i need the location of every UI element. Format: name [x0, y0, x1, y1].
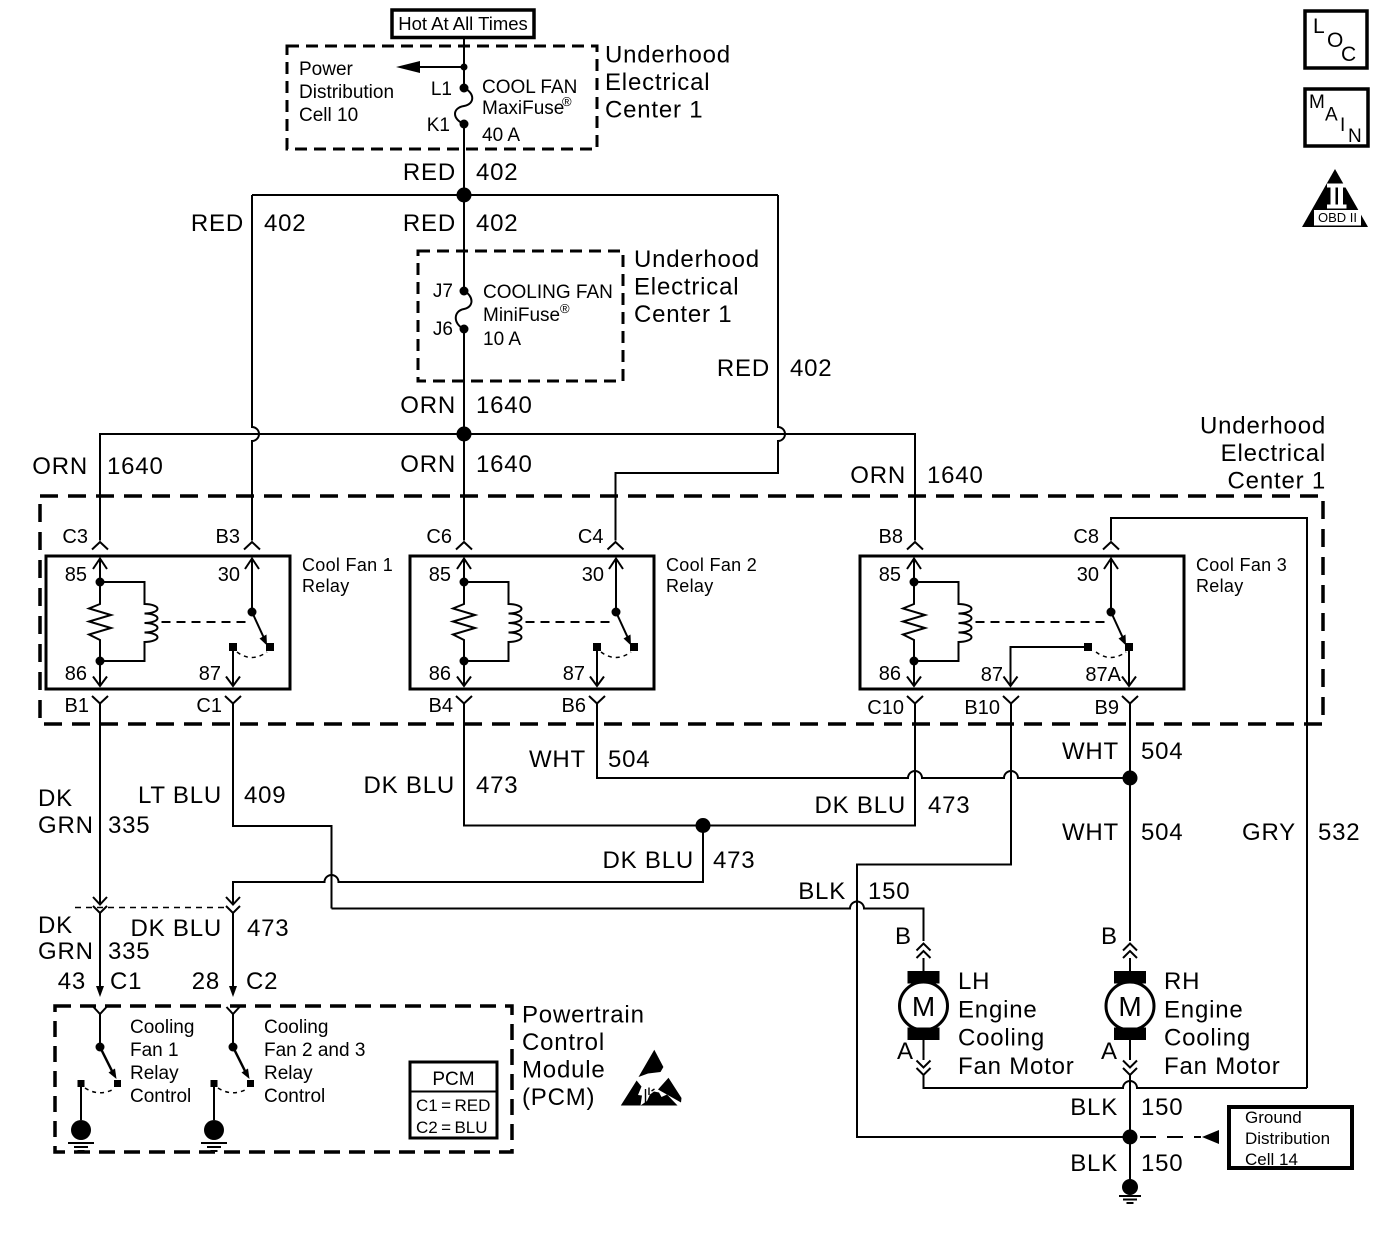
svg-text:Powertrain: Powertrain — [522, 1002, 645, 1029]
relay 1 switch travel dashed arc — [237, 652, 267, 658]
svg-text:Fan 1: Fan 1 — [130, 1040, 179, 1061]
svg-text:®: ® — [560, 301, 570, 316]
connector pin B10 (bottom of UEC) — [964, 696, 1019, 724]
PCM driver: Cooling Fan 1 Relay Control switch — [78, 1014, 122, 1120]
svg-text:Cool Fan 3: Cool Fan 3 — [1196, 555, 1287, 575]
svg-text:LT BLU: LT BLU — [138, 782, 222, 809]
svg-text:Fan Motor: Fan Motor — [958, 1053, 1075, 1080]
label: BLK 150 (at B10 drop) — [798, 878, 910, 905]
label: DK GRN 335 (lower) — [38, 912, 150, 965]
svg-text:C4: C4 — [578, 526, 604, 548]
label: BLK 150 (to ground) — [1070, 1150, 1183, 1177]
relay 1 pin 86 label — [65, 663, 87, 685]
wire: DK BLU 473 from splice to PCM C2 (hops LT BLU) — [233, 826, 703, 904]
svg-text:LH: LH — [958, 968, 990, 995]
label: ORN 1640 (right branch) — [850, 462, 983, 489]
relay 3 pin 85 label — [879, 564, 901, 586]
svg-text:PCM: PCM — [432, 1069, 474, 1090]
relay 2 coil-to-switch dashed link — [526, 621, 611, 623]
svg-text:Center 1: Center 1 — [1228, 468, 1326, 495]
relay 1 resistor — [89, 582, 111, 661]
svg-text:Cell 10: Cell 10 — [299, 105, 358, 126]
svg-text:WHT: WHT — [1062, 738, 1119, 765]
svg-text:RH: RH — [1164, 968, 1200, 995]
svg-text:Relay: Relay — [302, 576, 350, 596]
wire: DK BLU 473 from in-line connector into PCM pin 28 C2 — [229, 913, 237, 997]
svg-text:Electrical: Electrical — [605, 69, 710, 96]
label: ORN 1640 (left branch) — [32, 453, 163, 480]
label: WHT 504 (at B6) — [529, 746, 651, 773]
svg-text:ORN: ORN — [850, 462, 906, 489]
relay 2 resistor — [453, 582, 475, 661]
svg-text:OBD II: OBD II — [1318, 210, 1357, 225]
svg-text:40 A: 40 A — [482, 125, 520, 146]
wire: ORN 1640 from MiniFuse to splice — [463, 329, 465, 434]
svg-text:Relay: Relay — [1196, 576, 1244, 596]
relay 1 pin 85 label — [65, 564, 87, 586]
relay 2 coil node dots — [460, 578, 469, 666]
relay 1 open contact — [266, 643, 274, 651]
svg-text:1640: 1640 — [927, 462, 984, 489]
svg-text:Engine: Engine — [1164, 996, 1244, 1023]
relay 3 name label — [1196, 555, 1287, 596]
svg-text:RED: RED — [191, 210, 244, 237]
relay 3 pin 86 label — [879, 663, 901, 685]
label: PCM pin 43 connector C1 — [58, 968, 143, 995]
svg-text:30: 30 — [218, 564, 240, 586]
svg-text:ORN: ORN — [32, 453, 88, 480]
header: Powertrain Control Module (PCM) — [522, 1002, 645, 1112]
svg-text:K1: K1 — [427, 115, 450, 136]
label: WHT 504 (upper at B9) — [1062, 738, 1184, 765]
relay 3 pin 30 terminal arrow — [1104, 559, 1118, 613]
svg-text:B4: B4 — [429, 695, 453, 717]
svg-text:ORN: ORN — [400, 451, 456, 478]
label: LT BLU 409 — [138, 782, 286, 809]
svg-text:30: 30 — [582, 564, 604, 586]
svg-text:Module: Module — [522, 1057, 606, 1084]
LH fan B terminal in-line connector — [895, 923, 931, 971]
dashed box: Powertrain Control Module (PCM) — [55, 1006, 512, 1152]
RH fan B terminal in-line connector — [1101, 923, 1137, 971]
label: DK GRN 335 (upper) — [38, 785, 150, 839]
dashed box: Underhood Electrical Center 1 (MiniFuse) — [418, 251, 623, 381]
svg-text:402: 402 — [476, 159, 518, 186]
node: DK BLU 473 splice — [696, 818, 711, 833]
node: ORN 1640 splice — [457, 427, 472, 442]
arrow: to Power Distribution — [396, 61, 468, 73]
PCM connector pin C2 (female) — [227, 1007, 240, 1014]
label: DK BLU 473 (at B4) — [364, 772, 519, 799]
motor: LH Engine Cooling Fan Motor — [900, 971, 948, 1040]
svg-text:86: 86 — [429, 663, 451, 685]
svg-text:MiniFuse: MiniFuse — [483, 305, 560, 326]
svg-text:473: 473 — [713, 847, 755, 874]
svg-text:87A: 87A — [1085, 664, 1121, 686]
svg-text:Relay: Relay — [264, 1063, 313, 1084]
Hot At All Times tag — [392, 10, 534, 38]
PCM connector pin C1 (female) — [94, 1007, 107, 1014]
relay 2 pin 86 label — [429, 663, 451, 685]
svg-text:N: N — [1348, 126, 1362, 147]
svg-text:Cool Fan 1: Cool Fan 1 — [302, 555, 393, 575]
relay 1 pin 30 terminal arrow — [245, 559, 259, 613]
svg-text:B: B — [1101, 923, 1118, 950]
relay 2 pin 86 terminal arrow — [457, 661, 471, 686]
wire: GRY 532 from C8 to fan motors series link — [1111, 518, 1307, 1088]
fuse: COOLING FAN MiniFuse 10 A (pins J7/J6) — [433, 281, 613, 350]
svg-text:M: M — [1118, 991, 1141, 1022]
svg-text:10 A: 10 A — [483, 329, 521, 350]
wire: DK BLU 473 from B4 to C10 — [464, 724, 915, 826]
svg-text:A: A — [1325, 105, 1338, 126]
svg-text:ORN: ORN — [400, 392, 456, 419]
svg-text:Hot At All Times: Hot At All Times — [398, 13, 528, 34]
svg-text:C: C — [1341, 43, 1356, 66]
svg-text:Center 1: Center 1 — [634, 301, 732, 328]
svg-text:Electrical: Electrical — [1221, 440, 1326, 467]
svg-text:473: 473 — [476, 772, 518, 799]
dashed reference arrow to Ground Distribution — [1140, 1130, 1219, 1144]
relay 3 pin 85 terminal arrow — [907, 559, 921, 583]
wire: ORN 1640 center branch to C6 — [463, 434, 465, 541]
label: RED 402 (top) — [403, 159, 519, 186]
svg-text:85: 85 — [879, 564, 901, 586]
wire: RED 402 right branch to C4 (hops ORN bus) — [616, 195, 786, 541]
svg-text:DK: DK — [38, 785, 73, 812]
label: BLK 150 (above ground splice) — [1070, 1094, 1183, 1121]
svg-text:85: 85 — [65, 564, 87, 586]
label: LH Engine Cooling Fan Motor — [958, 968, 1075, 1080]
relay: Cool Fan 1 Relay body — [46, 556, 290, 689]
connector pin C3 (female, top of UEC) — [62, 526, 108, 550]
relay 3 switch travel dashed arc — [1096, 652, 1126, 658]
wire: LH fan A to GRY series link (hops RH fan lead) — [924, 1075, 1308, 1088]
node: RED 402 splice — [457, 188, 472, 203]
svg-text:GRN: GRN — [38, 812, 94, 839]
svg-text:I: I — [1340, 115, 1345, 136]
connector pin C8 (female, top of UEC) — [1073, 526, 1119, 550]
wire: BLK 150 from B10 to ground splice (hops LT BLU) — [857, 724, 1130, 1137]
svg-text:43: 43 — [58, 968, 86, 995]
LH fan A terminal in-line connector — [897, 1038, 931, 1075]
badge: LOC — [1305, 11, 1367, 68]
svg-text:C3: C3 — [62, 526, 88, 548]
wire: RED 402 distribution bus — [252, 194, 778, 196]
relay 2 pin 30 terminal arrow — [609, 559, 623, 613]
relay 3 switch arm — [1107, 608, 1127, 646]
motor: RH Engine Cooling Fan Motor — [1106, 971, 1154, 1040]
wire: DK GRN 335 from B1 to in-line connector — [99, 724, 101, 903]
label: RH Engine Cooling Fan Motor — [1164, 968, 1281, 1080]
wire: RED 402 from fuse to junction — [463, 124, 465, 195]
dashed box: Underhood Electrical Center 1 (fuse block) — [287, 46, 597, 149]
svg-text:Electrical: Electrical — [634, 274, 739, 301]
svg-text:Underhood: Underhood — [605, 42, 731, 69]
svg-text:B3: B3 — [216, 526, 240, 548]
relay 2 pin 87 terminal arrow — [590, 651, 604, 686]
svg-text:Relay: Relay — [666, 576, 714, 596]
svg-text:BLK: BLK — [1070, 1094, 1118, 1121]
ground (PCM fan 1 driver) — [68, 1120, 94, 1151]
fuse: COOL FAN MaxiFuse 40 A (pins L1/K1) — [427, 77, 578, 146]
label: DK BLU 473 (lower) — [131, 915, 290, 942]
relay 1 name label — [302, 555, 393, 596]
svg-text:87: 87 — [563, 663, 585, 685]
connector pin B3 (female, top of UEC) — [216, 526, 260, 550]
relay 1 coil-to-switch dashed link — [162, 621, 247, 623]
connector pin C6 (female, top of UEC) — [426, 526, 472, 550]
svg-text:DK BLU: DK BLU — [603, 847, 695, 874]
svg-text:B8: B8 — [879, 526, 903, 548]
svg-text:Underhood: Underhood — [1200, 413, 1326, 440]
svg-text:87: 87 — [981, 664, 1003, 686]
PCM driver: Cooling Fan 2 and 3 Relay Control switch — [211, 1014, 255, 1120]
relay 2 pin 87 label — [563, 663, 585, 685]
svg-text:L1: L1 — [431, 79, 452, 100]
svg-text:BLK: BLK — [798, 878, 846, 905]
svg-text:B: B — [895, 923, 912, 950]
svg-text:B9: B9 — [1095, 697, 1119, 719]
svg-text:DK BLU: DK BLU — [815, 792, 907, 819]
connector pin B6 (bottom of UEC) — [562, 695, 605, 724]
connector pin C4 (female, top of UEC) — [578, 526, 624, 550]
svg-text:C8: C8 — [1073, 526, 1099, 548]
svg-text:402: 402 — [264, 210, 306, 237]
connector pin C1 (bottom of UEC) — [196, 695, 241, 724]
relay 2 coil — [464, 582, 522, 661]
relay 2 switch arm — [612, 608, 632, 646]
relay 2 pin 30 label — [582, 564, 604, 586]
wire: BLK 150 RH fan A to ground splice — [1129, 1075, 1131, 1137]
svg-text:86: 86 — [65, 663, 87, 685]
label: Cooling Fan 2 and 3 Relay Control — [264, 1017, 365, 1107]
svg-text:BLK: BLK — [1070, 1150, 1118, 1177]
ground (PCM fan 2/3 driver) — [201, 1120, 227, 1151]
relay 3 resistor — [903, 582, 925, 661]
svg-text:GRN: GRN — [38, 938, 94, 965]
svg-text:COOLING FAN: COOLING FAN — [483, 282, 613, 303]
RH fan A terminal in-line connector — [1101, 1038, 1137, 1075]
svg-text:87: 87 — [199, 663, 221, 685]
ground (G100) — [1119, 1179, 1141, 1203]
label: GRY 532 — [1242, 819, 1360, 846]
svg-text:335: 335 — [108, 938, 150, 965]
svg-text:Power: Power — [299, 59, 354, 80]
label: RED 402 (center branch) — [403, 210, 519, 237]
relay 1 pin 85 terminal arrow — [93, 559, 107, 583]
svg-text:L: L — [1313, 15, 1325, 38]
svg-text:150: 150 — [1141, 1150, 1183, 1177]
svg-text:C1 = RED: C1 = RED — [416, 1096, 490, 1115]
relay 3 pin 30 label — [1077, 564, 1099, 586]
svg-text:30: 30 — [1077, 564, 1099, 586]
svg-text:1640: 1640 — [476, 451, 533, 478]
svg-text:Cooling: Cooling — [130, 1017, 194, 1038]
relay 3 coil node dots — [910, 578, 919, 666]
PCM connector color legend box — [410, 1062, 497, 1138]
wire: DK GRN 335 from in-line connector into PCM pin 43 C1 — [96, 913, 104, 997]
svg-text:GRY: GRY — [1242, 819, 1296, 846]
label: DK BLU 473 (center) — [603, 847, 756, 874]
svg-text:C10: C10 — [867, 697, 904, 719]
badge: OBD II — [1302, 169, 1368, 227]
relay 3 contact 87 leg — [981, 643, 1092, 686]
connector pin B8 (female, top of UEC) — [879, 526, 923, 550]
reference box: Ground Distribution Cell 14 — [1229, 1107, 1352, 1169]
svg-text:C1: C1 — [196, 695, 222, 717]
svg-text:C2: C2 — [246, 968, 278, 995]
ESD sensitivity symbol — [621, 1050, 682, 1106]
connector pin C10 (bottom of UEC) — [867, 696, 923, 724]
svg-text:Cooling: Cooling — [1164, 1025, 1251, 1052]
relay 2 open contact — [630, 643, 638, 651]
header: Underhood Electrical Center 1 (top) — [605, 42, 731, 124]
svg-text:C1: C1 — [110, 968, 142, 995]
svg-text:335: 335 — [108, 812, 150, 839]
badge: MAIN — [1305, 89, 1368, 147]
in-line connector C2 on DK BLU (PCM harness) — [226, 897, 240, 913]
svg-text:WHT: WHT — [529, 746, 586, 773]
svg-text:C6: C6 — [426, 526, 452, 548]
svg-text:Relay: Relay — [130, 1063, 179, 1084]
relay 3 pin 86 terminal arrow — [907, 661, 921, 686]
dashed link between in-line connectors — [75, 907, 226, 909]
svg-text:A: A — [1101, 1038, 1118, 1065]
relay 1 pin 86 terminal arrow — [93, 661, 107, 686]
svg-text:M: M — [912, 991, 935, 1022]
relay 2 pin 85 terminal arrow — [457, 559, 471, 583]
svg-text:150: 150 — [868, 878, 910, 905]
label: Cooling Fan 1 Relay Control — [130, 1017, 194, 1107]
relay 2 switch travel dashed arc — [601, 652, 631, 658]
svg-text:Distribution: Distribution — [299, 82, 394, 103]
label: Power Distribution Cell 10 — [299, 59, 394, 126]
svg-text:Engine: Engine — [958, 996, 1038, 1023]
svg-text:Underhood: Underhood — [634, 246, 760, 273]
connector pin B1 (bottom of UEC) — [65, 695, 108, 724]
svg-text:A: A — [897, 1038, 914, 1065]
svg-text:(PCM): (PCM) — [522, 1084, 595, 1111]
wire: ORN 1640 bus to C3 and B8 — [100, 434, 915, 541]
svg-text:1640: 1640 — [476, 392, 533, 419]
svg-text:Ground: Ground — [1245, 1108, 1302, 1127]
connector pin B4 (bottom of UEC) — [429, 695, 472, 724]
wire: feed from Hot At All Times into fuse — [463, 37, 465, 88]
wire: RED 402 left branch to B3 (hops ORN bus) — [252, 195, 259, 541]
svg-text:DK: DK — [38, 912, 73, 939]
label: PCM pin 28 connector C2 — [192, 968, 279, 995]
node: WHT 504 splice — [1123, 771, 1138, 786]
relay 3 coil-to-switch dashed link — [976, 621, 1106, 623]
svg-text:85: 85 — [429, 564, 451, 586]
relay 1 coil node dots — [96, 578, 105, 666]
relay 1 pin 30 label — [218, 564, 240, 586]
svg-text:Cell 14: Cell 14 — [1245, 1150, 1298, 1169]
relay 3 coil — [914, 582, 972, 661]
dashed box: Underhood Electrical Center 1 (relay block) — [40, 496, 1323, 724]
svg-text:RED: RED — [403, 159, 456, 186]
relay: Cool Fan 3 Relay body — [860, 556, 1184, 689]
wire: BLK 150 splice to ground — [1129, 1137, 1131, 1180]
wire: RED 402 center branch to MiniFuse — [463, 195, 465, 291]
svg-text:532: 532 — [1318, 819, 1360, 846]
relay 3 contact 87A leg — [1085, 643, 1136, 686]
svg-text:1640: 1640 — [107, 453, 164, 480]
label: ORN 1640 (center branch) — [400, 451, 532, 478]
svg-text:Fan 2 and 3: Fan 2 and 3 — [264, 1040, 365, 1061]
in-line connector C1 on DK GRN (PCM harness) — [93, 897, 107, 913]
svg-text:B10: B10 — [964, 697, 1000, 719]
svg-text:®: ® — [562, 94, 572, 109]
svg-text:473: 473 — [247, 915, 289, 942]
header: Underhood Electrical Center 1 (relay block) — [1200, 413, 1326, 495]
relay 1 pin 87 terminal arrow — [226, 651, 240, 686]
wire: LT BLU 409 from C1 to LH fan motor B — [233, 724, 924, 941]
relay 2 pin 85 label — [429, 564, 451, 586]
svg-text:Control: Control — [264, 1086, 325, 1107]
relay 2 contact 87 — [593, 643, 601, 651]
svg-text:Cooling: Cooling — [264, 1017, 328, 1038]
svg-text:504: 504 — [1141, 819, 1183, 846]
svg-text:Cooling: Cooling — [958, 1025, 1045, 1052]
svg-text:B6: B6 — [562, 695, 586, 717]
svg-text:MaxiFuse: MaxiFuse — [482, 98, 564, 119]
relay 2 name label — [666, 555, 757, 596]
header: Underhood Electrical Center 1 (MiniFuse) — [634, 246, 760, 328]
svg-text:B1: B1 — [65, 695, 89, 717]
connector pin B9 (bottom of UEC) — [1095, 696, 1138, 724]
svg-text:DK BLU: DK BLU — [131, 915, 223, 942]
relay 1 pin 87 label — [199, 663, 221, 685]
svg-text:86: 86 — [879, 663, 901, 685]
svg-text:504: 504 — [1141, 738, 1183, 765]
svg-text:473: 473 — [928, 792, 970, 819]
relay 1 contact 87 — [229, 643, 237, 651]
label: RED 402 (left branch) — [191, 210, 307, 237]
svg-text:Center 1: Center 1 — [605, 97, 703, 124]
svg-text:402: 402 — [476, 210, 518, 237]
svg-text:409: 409 — [244, 782, 286, 809]
label: ORN 1640 (above splice) — [400, 392, 532, 419]
label: RED 402 (right branch) — [717, 355, 833, 382]
svg-text:J7: J7 — [433, 281, 453, 302]
svg-text:Fan Motor: Fan Motor — [1164, 1053, 1281, 1080]
svg-text:504: 504 — [608, 746, 650, 773]
svg-text:RED: RED — [403, 210, 456, 237]
relay: Cool Fan 2 Relay body — [410, 556, 654, 689]
svg-text:Cool Fan 2: Cool Fan 2 — [666, 555, 757, 575]
svg-text:M: M — [1309, 92, 1325, 113]
svg-text:J6: J6 — [433, 319, 453, 340]
svg-text:28: 28 — [192, 968, 220, 995]
label: WHT 504 (lower at B9) — [1062, 819, 1184, 846]
svg-text:150: 150 — [1141, 1094, 1183, 1121]
node: BLK 150 ground splice — [1123, 1130, 1138, 1145]
svg-text:C2 = BLU: C2 = BLU — [416, 1118, 488, 1137]
svg-text:RED: RED — [717, 355, 770, 382]
label: DK BLU 473 (at C10) — [815, 792, 971, 819]
relay 1 switch arm — [248, 608, 268, 646]
svg-text:Control: Control — [522, 1029, 605, 1056]
svg-text:402: 402 — [790, 355, 832, 382]
svg-text:Control: Control — [130, 1086, 191, 1107]
relay 1 coil — [100, 582, 158, 661]
svg-text:Distribution: Distribution — [1245, 1129, 1330, 1148]
wire: WHT 504 from B6 to RH fan motor B — [597, 724, 1130, 941]
svg-text:DK BLU: DK BLU — [364, 772, 456, 799]
svg-text:WHT: WHT — [1062, 819, 1119, 846]
